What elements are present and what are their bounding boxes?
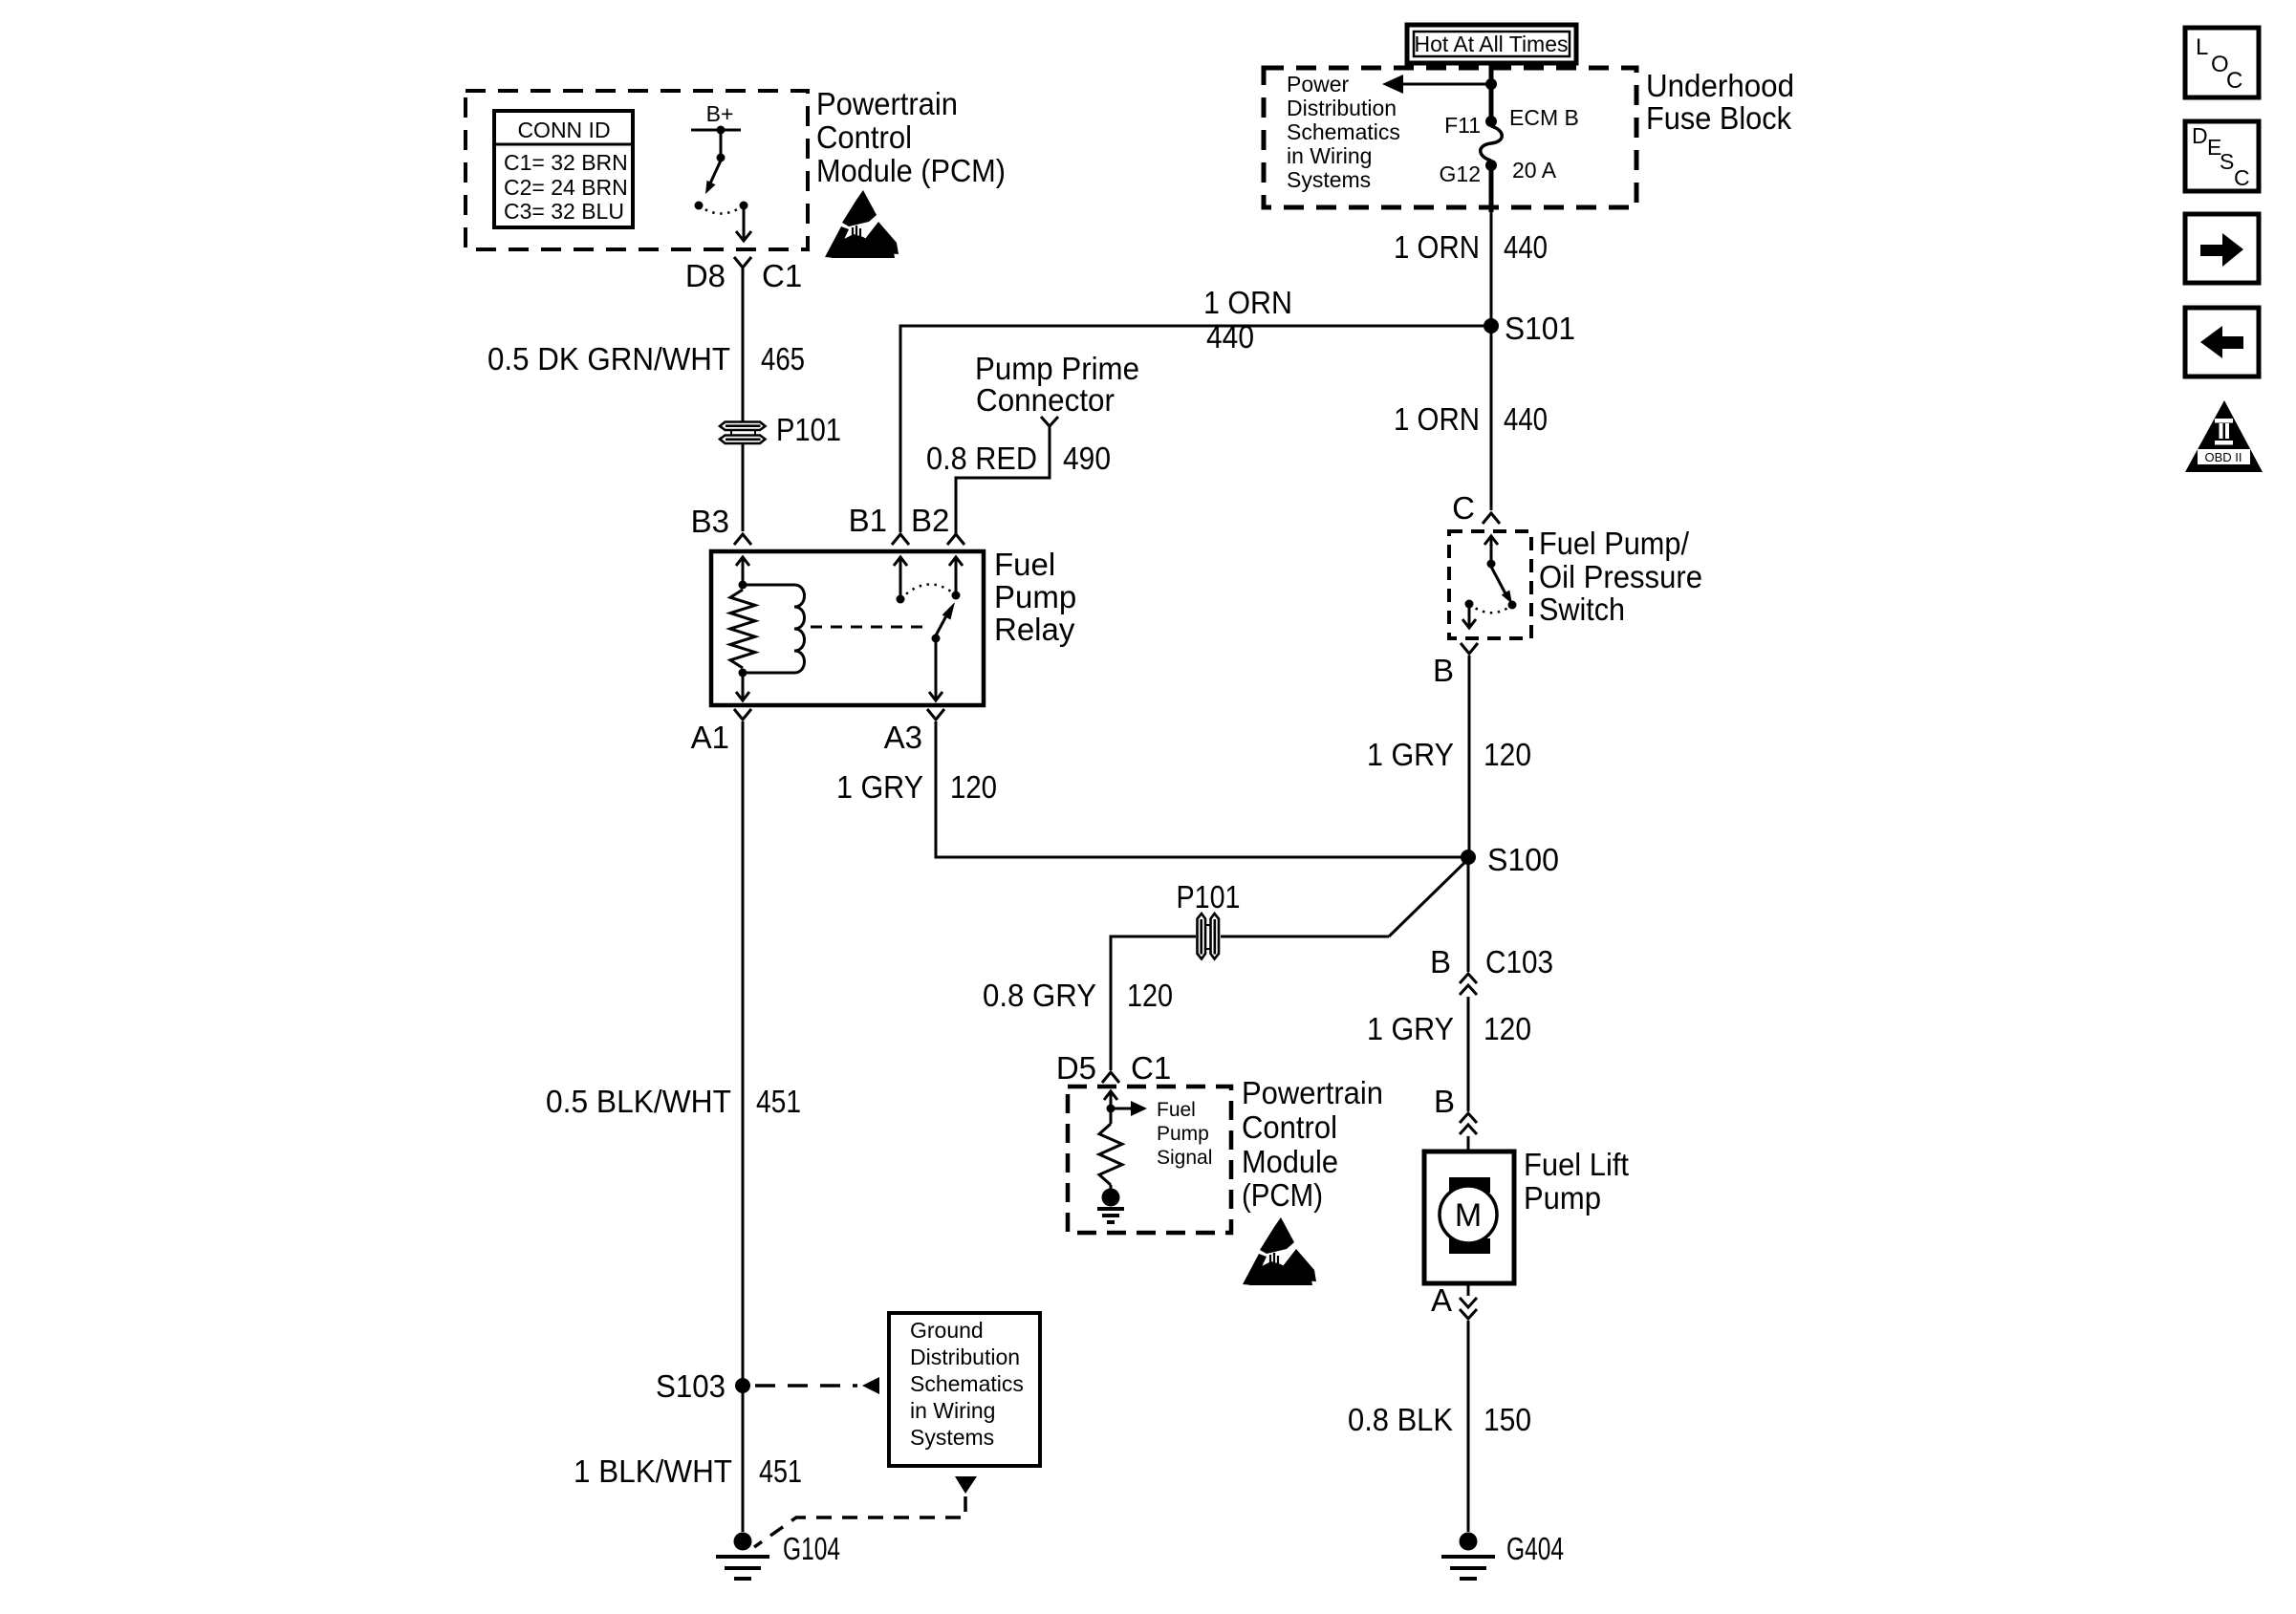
svg-text:Relay: Relay [994,612,1075,647]
svg-text:120: 120 [1484,1011,1531,1046]
svg-text:20 A: 20 A [1512,158,1557,183]
svg-text:120: 120 [950,769,997,805]
svg-text:1 ORN: 1 ORN [1394,401,1480,437]
svg-text:Underhood: Underhood [1646,68,1794,103]
svg-text:G12: G12 [1440,161,1481,186]
svg-text:B: B [1430,944,1451,979]
svg-text:C: C [1452,490,1475,526]
svg-text:440: 440 [1504,401,1548,437]
svg-text:A3: A3 [884,720,922,755]
svg-text:Control: Control [816,119,912,155]
svg-text:B2: B2 [911,503,949,538]
svg-text:Hot At All Times: Hot At All Times [1415,32,1569,56]
svg-text:440: 440 [1504,229,1548,265]
svg-text:1 GRY: 1 GRY [836,769,923,805]
svg-text:0.8 GRY: 0.8 GRY [983,978,1096,1013]
svg-text:0.5 BLK/WHT: 0.5 BLK/WHT [546,1084,731,1119]
svg-text:B1: B1 [849,503,887,538]
svg-text:Ground: Ground [910,1318,984,1343]
svg-text:440: 440 [1206,319,1254,355]
svg-text:D: D [2192,123,2208,148]
svg-text:Connector: Connector [976,382,1115,418]
svg-text:0.5 DK GRN/WHT: 0.5 DK GRN/WHT [487,341,730,377]
svg-text:Module: Module [1242,1144,1338,1179]
svg-text:Schematics: Schematics [1287,119,1400,144]
svg-text:451: 451 [759,1453,802,1489]
svg-text:1 BLK/WHT: 1 BLK/WHT [574,1453,732,1489]
svg-text:D5: D5 [1056,1050,1096,1086]
svg-text:S100: S100 [1487,842,1559,877]
svg-text:120: 120 [1127,978,1173,1013]
svg-text:C1: C1 [762,258,802,293]
svg-text:Fuel Lift: Fuel Lift [1524,1147,1629,1182]
svg-text:Signal: Signal [1157,1147,1212,1169]
svg-text:Fuel: Fuel [994,547,1055,582]
svg-text:Oil Pressure: Oil Pressure [1539,559,1702,594]
svg-text:150: 150 [1484,1402,1531,1437]
svg-text:0.8 RED: 0.8 RED [926,441,1037,476]
svg-text:1 GRY: 1 GRY [1367,737,1454,772]
svg-text:C3= 32 BLU: C3= 32 BLU [504,199,624,224]
svg-text:B: B [1434,1084,1455,1119]
svg-text:490: 490 [1063,441,1111,476]
svg-text:465: 465 [761,341,805,377]
svg-text:in Wiring: in Wiring [1287,143,1372,168]
svg-text:1 ORN: 1 ORN [1203,285,1292,320]
svg-text:D8: D8 [685,258,726,293]
svg-text:C2= 24 BRN: C2= 24 BRN [504,175,628,200]
svg-text:Module (PCM): Module (PCM) [816,153,1006,188]
svg-text:P101: P101 [776,412,841,447]
svg-text:M: M [1455,1197,1482,1234]
svg-text:Distribution: Distribution [1287,96,1397,120]
svg-text:1 ORN: 1 ORN [1394,229,1480,265]
svg-text:Powertrain: Powertrain [816,86,958,121]
svg-text:L: L [2196,34,2208,60]
svg-text:C: C [2234,165,2250,190]
svg-text:Fuse Block: Fuse Block [1646,100,1791,136]
svg-text:Pump: Pump [1524,1180,1601,1216]
svg-text:Systems: Systems [910,1425,994,1450]
svg-text:G104: G104 [783,1531,840,1566]
svg-text:C103: C103 [1485,944,1553,979]
svg-text:B+: B+ [706,101,734,126]
svg-text:Fuel: Fuel [1157,1099,1196,1121]
svg-text:Distribution: Distribution [910,1345,1020,1369]
svg-text:Pump: Pump [994,579,1076,614]
svg-text:OBD II: OBD II [2204,450,2242,464]
svg-text:A: A [1431,1282,1452,1318]
svg-text:B3: B3 [691,504,729,539]
svg-text:Schematics: Schematics [910,1371,1024,1396]
svg-text:C1: C1 [1131,1050,1171,1086]
svg-text:P101: P101 [1177,879,1241,915]
svg-text:Power: Power [1287,72,1350,97]
svg-text:Powertrain: Powertrain [1242,1075,1383,1110]
svg-text:Pump Prime: Pump Prime [975,351,1139,386]
svg-text:Pump: Pump [1157,1123,1209,1145]
svg-text:Control: Control [1242,1109,1337,1145]
svg-text:Systems: Systems [1287,167,1371,192]
svg-text:S: S [2220,149,2234,174]
svg-text:S103: S103 [656,1368,726,1404]
svg-text:G404: G404 [1506,1531,1564,1566]
svg-text:F11: F11 [1444,113,1481,138]
svg-text:S101: S101 [1505,311,1575,346]
svg-text:B: B [1433,653,1454,688]
svg-text:Fuel Pump/: Fuel Pump/ [1539,526,1690,561]
svg-text:CONN ID: CONN ID [517,118,610,142]
svg-text:120: 120 [1484,737,1531,772]
svg-text:ECM B: ECM B [1509,105,1579,130]
svg-text:Switch: Switch [1539,592,1625,627]
svg-text:1 GRY: 1 GRY [1367,1011,1454,1046]
svg-text:in Wiring: in Wiring [910,1398,995,1423]
svg-text:(PCM): (PCM) [1242,1177,1323,1213]
svg-text:C1= 32 BRN: C1= 32 BRN [504,150,628,175]
svg-text:0.8 BLK: 0.8 BLK [1348,1402,1453,1437]
svg-text:C: C [2226,68,2242,94]
svg-text:A1: A1 [691,720,729,755]
svg-text:451: 451 [756,1084,801,1119]
